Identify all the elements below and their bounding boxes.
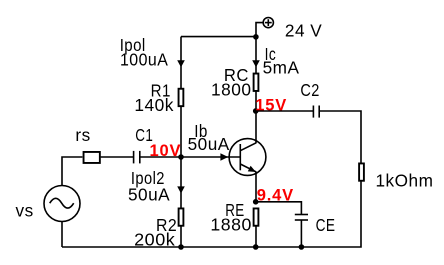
svg-text:C2: C2 [300, 80, 319, 100]
resistor RE [254, 208, 259, 225]
junction base node [178, 154, 184, 160]
current arrow Ic [252, 60, 260, 67]
wire R2 to ground rail [180, 226, 182, 247]
voltage source vs [44, 186, 80, 222]
wire R1 to base node [180, 106, 182, 157]
wire collector node to C2 [256, 110, 313, 112]
wire C2 to load [319, 111, 361, 164]
junction ground CE [299, 244, 305, 250]
wire C1 to base node [140, 156, 181, 158]
svg-text:50uA: 50uA [188, 134, 230, 154]
transistor Q1 [229, 139, 266, 176]
wire CE to ground rail [300, 220, 302, 247]
resistor R1 [179, 89, 184, 106]
svg-text:vs: vs [16, 201, 34, 221]
wire load to ground rail [62, 181, 361, 247]
svg-text:100uA: 100uA [120, 50, 168, 70]
wire emitter node to CE [256, 202, 301, 215]
svg-text:24 V: 24 V [285, 20, 322, 40]
svg-text:140k: 140k [134, 95, 174, 115]
wire RC branch upper [255, 37, 257, 74]
svg-text:1800: 1800 [211, 79, 252, 99]
wire vs bottom [61, 222, 63, 248]
junction emitter node [253, 199, 259, 205]
junction collector node [253, 108, 259, 114]
wire RC to collector node [255, 91, 257, 111]
svg-text:1880: 1880 [210, 214, 252, 234]
wire RE to ground rail [255, 226, 257, 247]
capacitor CE [295, 215, 308, 221]
svg-text:CE: CE [316, 215, 336, 235]
svg-text:1kOhm: 1kOhm [376, 171, 434, 191]
wire vs top [62, 157, 82, 186]
current arrow Ib [220, 153, 228, 160]
junction ground R2 [178, 244, 184, 250]
wire R1 branch upper [180, 37, 182, 89]
wire rs to C1 [101, 156, 134, 158]
capacitor C2 [313, 106, 319, 118]
resistor rs [84, 152, 100, 163]
resistor R2 [179, 208, 184, 225]
junction ground RE [253, 244, 259, 250]
wire emitter [255, 172, 257, 202]
supply symbol +24V [263, 18, 273, 28]
current arrow Ipol2 [177, 186, 185, 193]
svg-text:5mA: 5mA [263, 58, 300, 78]
svg-text:rs: rs [75, 125, 90, 145]
svg-text:15V: 15V [255, 97, 287, 115]
wire collector [255, 111, 257, 143]
capacitor C1 [134, 151, 140, 164]
svg-text:10V: 10V [150, 142, 182, 160]
wire R2 branch upper [180, 157, 182, 208]
wire base node to transistor [181, 156, 240, 158]
junction supply node [253, 34, 259, 40]
resistor RC [254, 74, 259, 91]
resistor RL 1kOhm [359, 163, 364, 180]
svg-text:50uA: 50uA [128, 184, 170, 204]
wire top rail [181, 36, 256, 38]
wire supply to rail [256, 23, 264, 37]
current arrow Ipol [177, 60, 185, 67]
